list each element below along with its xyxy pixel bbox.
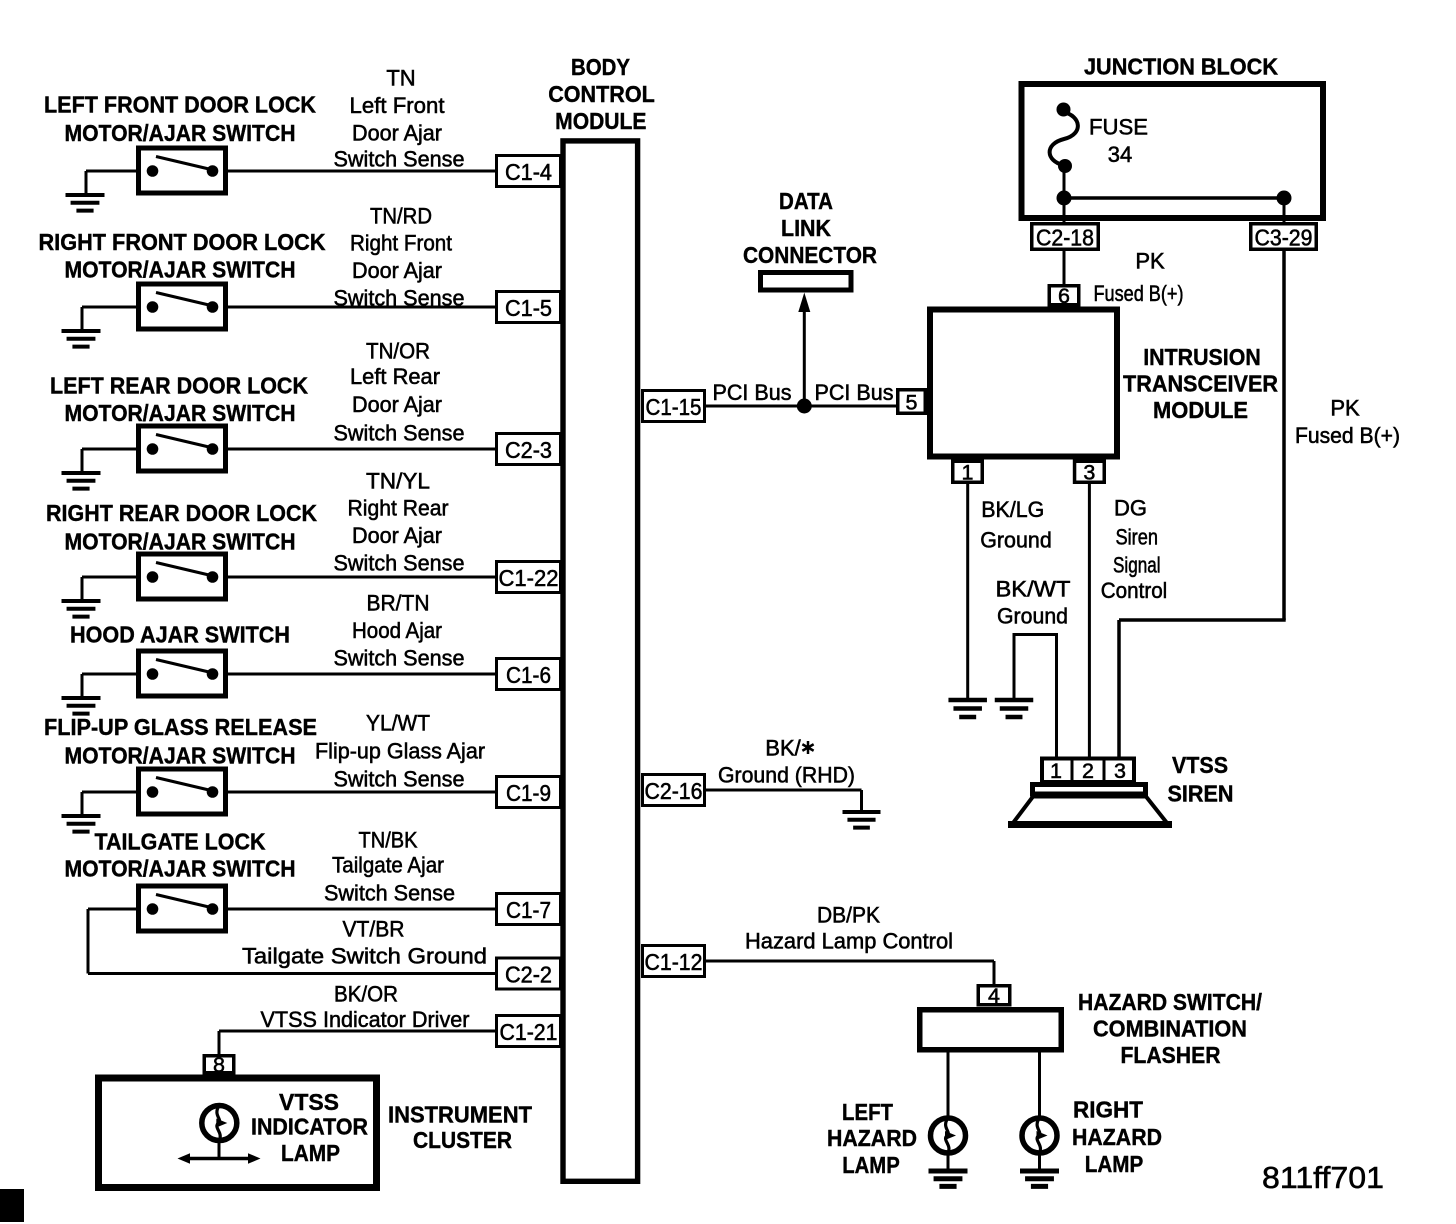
svg-text:TN/RD: TN/RD: [370, 204, 432, 229]
svg-text:C1-7: C1-7: [506, 897, 551, 923]
svg-text:INSTRUMENT: INSTRUMENT: [388, 1102, 532, 1128]
svg-text:SIREN: SIREN: [1168, 781, 1234, 807]
svg-text:COMBINATION: COMBINATION: [1093, 1016, 1247, 1042]
svg-text:Hazard Lamp Control: Hazard Lamp Control: [745, 929, 953, 954]
svg-text:4: 4: [988, 984, 1000, 1008]
svg-text:LAMP: LAMP: [1085, 1151, 1144, 1177]
svg-text:C1-22: C1-22: [499, 565, 559, 591]
svg-text:INDICATOR: INDICATOR: [251, 1114, 368, 1140]
svg-text:VT/BR: VT/BR: [343, 917, 405, 942]
svg-text:BK/WT: BK/WT: [996, 577, 1071, 602]
svg-text:Switch Sense: Switch Sense: [324, 881, 455, 906]
svg-text:LINK: LINK: [781, 215, 831, 241]
svg-text:Ground (RHD): Ground (RHD): [718, 763, 855, 788]
svg-text:PCI Bus: PCI Bus: [815, 380, 894, 405]
svg-text:MOTOR/AJAR SWITCH: MOTOR/AJAR SWITCH: [65, 856, 296, 882]
svg-text:YL/WT: YL/WT: [366, 711, 430, 736]
svg-text:Tailgate Switch Ground: Tailgate Switch Ground: [242, 944, 487, 969]
svg-text:C2-3: C2-3: [505, 437, 552, 463]
svg-text:CLUSTER: CLUSTER: [413, 1127, 512, 1153]
svg-text:3: 3: [1114, 759, 1126, 783]
svg-text:Switch Sense: Switch Sense: [334, 767, 465, 792]
svg-text:Switch Sense: Switch Sense: [334, 421, 465, 446]
svg-text:BR/TN: BR/TN: [367, 591, 430, 616]
svg-text:2: 2: [1082, 759, 1094, 783]
svg-text:TN/OR: TN/OR: [366, 339, 430, 364]
svg-text:Fused B(+): Fused B(+): [1094, 281, 1184, 306]
svg-text:VTSS Indicator Driver: VTSS Indicator Driver: [261, 1007, 470, 1032]
svg-text:BK/: BK/: [765, 736, 801, 761]
svg-text:Flip-up Glass Ajar: Flip-up Glass Ajar: [315, 739, 485, 764]
svg-text:C3-29: C3-29: [1255, 225, 1313, 251]
svg-text:C1-4: C1-4: [505, 159, 552, 185]
svg-text:1: 1: [962, 461, 974, 485]
svg-text:Left Front: Left Front: [350, 93, 445, 118]
svg-text:Hood Ajar: Hood Ajar: [352, 618, 442, 643]
svg-text:HAZARD: HAZARD: [827, 1125, 917, 1151]
svg-text:Siren: Siren: [1116, 525, 1159, 550]
svg-text:HOOD AJAR SWITCH: HOOD AJAR SWITCH: [70, 622, 290, 648]
svg-text:8: 8: [213, 1053, 225, 1077]
svg-text:C1-5: C1-5: [505, 295, 552, 321]
svg-text:Door Ajar: Door Ajar: [352, 121, 442, 146]
svg-text:LEFT: LEFT: [842, 1099, 893, 1125]
svg-text:C1-6: C1-6: [506, 662, 551, 688]
svg-text:BK/OR: BK/OR: [334, 982, 398, 1007]
svg-text:LEFT REAR DOOR LOCK: LEFT REAR DOOR LOCK: [50, 373, 308, 399]
svg-text:Ground: Ground: [997, 604, 1068, 629]
svg-text:PK: PK: [1135, 249, 1165, 274]
svg-text:MOTOR/AJAR SWITCH: MOTOR/AJAR SWITCH: [65, 743, 296, 769]
svg-text:Door Ajar: Door Ajar: [352, 258, 442, 283]
svg-text:FLASHER: FLASHER: [1121, 1042, 1221, 1068]
svg-text:811ff701: 811ff701: [1262, 1160, 1384, 1195]
svg-text:MODULE: MODULE: [1153, 397, 1248, 423]
svg-text:TN: TN: [386, 66, 415, 91]
svg-text:Left Rear: Left Rear: [350, 364, 440, 389]
svg-text:RIGHT REAR DOOR LOCK: RIGHT REAR DOOR LOCK: [46, 500, 317, 526]
svg-text:Ground: Ground: [980, 528, 1052, 553]
svg-text:HAZARD SWITCH/: HAZARD SWITCH/: [1078, 989, 1263, 1015]
svg-text:MOTOR/AJAR SWITCH: MOTOR/AJAR SWITCH: [65, 257, 296, 283]
svg-text:INTRUSION: INTRUSION: [1143, 344, 1261, 370]
svg-text:DATA: DATA: [779, 188, 833, 214]
svg-text:FUSE: FUSE: [1089, 115, 1148, 140]
svg-text:VTSS: VTSS: [1172, 752, 1228, 778]
svg-text:Tailgate Ajar: Tailgate Ajar: [332, 853, 444, 878]
svg-text:CONNECTOR: CONNECTOR: [743, 242, 877, 268]
svg-text:Fused B(+): Fused B(+): [1295, 423, 1400, 448]
svg-text:C1-9: C1-9: [506, 780, 551, 806]
svg-text:1: 1: [1050, 759, 1062, 783]
svg-text:Right Front: Right Front: [350, 231, 452, 256]
svg-text:MOTOR/AJAR SWITCH: MOTOR/AJAR SWITCH: [65, 120, 296, 146]
svg-text:Switch Sense: Switch Sense: [334, 286, 465, 311]
svg-text:DG: DG: [1114, 496, 1147, 521]
svg-text:3: 3: [1083, 461, 1095, 485]
svg-text:TN/BK: TN/BK: [359, 828, 418, 853]
svg-text:MOTOR/AJAR SWITCH: MOTOR/AJAR SWITCH: [65, 400, 296, 426]
svg-text:C1-15: C1-15: [646, 394, 702, 420]
svg-text:MOTOR/AJAR SWITCH: MOTOR/AJAR SWITCH: [65, 529, 296, 555]
svg-text:Door Ajar: Door Ajar: [352, 523, 442, 548]
svg-text:C2-18: C2-18: [1036, 225, 1094, 251]
svg-text:BK/LG: BK/LG: [981, 497, 1044, 522]
svg-text:Switch Sense: Switch Sense: [334, 147, 465, 172]
svg-text:5: 5: [906, 391, 918, 415]
svg-text:LEFT FRONT DOOR LOCK: LEFT FRONT DOOR LOCK: [44, 92, 316, 118]
svg-text:C2-2: C2-2: [505, 962, 552, 988]
svg-text:Signal: Signal: [1113, 553, 1161, 578]
svg-text:PK: PK: [1330, 396, 1360, 421]
svg-text:VTSS: VTSS: [279, 1089, 339, 1115]
svg-text:HAZARD: HAZARD: [1072, 1124, 1162, 1150]
svg-text:C2-16: C2-16: [645, 778, 703, 804]
svg-text:LAMP: LAMP: [281, 1140, 340, 1166]
svg-text:Right Rear: Right Rear: [348, 496, 449, 521]
svg-text:Switch Sense: Switch Sense: [334, 646, 465, 671]
svg-text:CONTROL: CONTROL: [548, 81, 655, 107]
svg-text:C1-21: C1-21: [500, 1019, 558, 1045]
svg-text:MODULE: MODULE: [555, 108, 646, 134]
svg-text:RIGHT: RIGHT: [1073, 1097, 1143, 1123]
svg-text:Switch Sense: Switch Sense: [334, 551, 465, 576]
svg-text:FLIP-UP GLASS RELEASE: FLIP-UP GLASS RELEASE: [44, 714, 317, 740]
svg-text:TAILGATE LOCK: TAILGATE LOCK: [95, 829, 266, 855]
svg-text:JUNCTION BLOCK: JUNCTION BLOCK: [1084, 54, 1278, 80]
svg-text:TRANSCEIVER: TRANSCEIVER: [1123, 371, 1278, 397]
svg-text:LAMP: LAMP: [842, 1152, 900, 1178]
svg-text:DB/PK: DB/PK: [817, 903, 880, 928]
svg-text:34: 34: [1108, 142, 1132, 167]
svg-text:6: 6: [1058, 284, 1070, 308]
svg-text:PCI Bus: PCI Bus: [713, 380, 792, 405]
svg-text:C1-12: C1-12: [645, 949, 703, 975]
svg-text:TN/YL: TN/YL: [366, 469, 430, 494]
svg-text:Control: Control: [1101, 578, 1168, 603]
svg-text:Door Ajar: Door Ajar: [352, 392, 442, 417]
svg-text:RIGHT FRONT DOOR LOCK: RIGHT FRONT DOOR LOCK: [39, 229, 326, 255]
svg-text:BODY: BODY: [571, 54, 630, 80]
